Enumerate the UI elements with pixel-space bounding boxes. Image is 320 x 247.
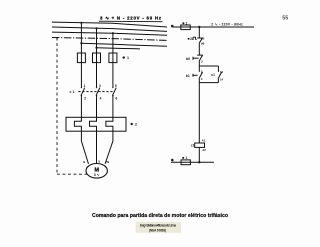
- svg-text:(NEA 67863): (NEA 67863): [149, 228, 166, 232]
- wire v1 upper: [80, 23, 82, 53]
- fuse e1 pole 2: [93, 53, 101, 63]
- overload NC contact e2 (95-96): [188, 36, 205, 45]
- svg-text:A1: A1: [202, 138, 206, 142]
- svg-text:95: 95: [201, 36, 205, 40]
- bus line N (dash-dot): [52, 38, 167, 41]
- wire coil to bottom rail: [198, 147, 200, 162]
- wire overload to motor 1: [81, 131, 88, 164]
- stop pushbutton b0 (NC): [186, 54, 203, 64]
- svg-text:2: 2: [190, 37, 192, 41]
- wire fuse1 to contact1: [80, 63, 82, 88]
- wire overload to motor 3: [105, 131, 113, 164]
- label e2: [131, 123, 138, 127]
- svg-text:Comando para partida direta de: Comando para partida direta de motor elé…: [92, 213, 228, 219]
- contactor c1 main contact 3-4: [96, 84, 101, 117]
- svg-text:Engº Stefano Affonso de Lima: Engº Stefano Affonso de Lima: [140, 223, 176, 227]
- fuse e1 pole 3: [109, 53, 117, 63]
- start pushbutton b1 (NO): [186, 69, 203, 81]
- overload relay e2 box: [66, 117, 126, 131]
- motor terminals U V W: [83, 160, 109, 164]
- svg-text:4: 4: [100, 96, 102, 100]
- svg-text:w: w: [106, 160, 110, 164]
- tap line A from phase R: [81, 43, 167, 46]
- wire c1 aux bottom: [217, 79, 219, 83]
- node tapA/v1: [80, 42, 82, 44]
- wire to e2 contact: [198, 27, 200, 38]
- svg-text:2: 2: [84, 96, 86, 100]
- node L3/v3: [112, 32, 114, 34]
- control top wire: [172, 26, 254, 28]
- overload heater 1: [74, 117, 81, 131]
- wire b1 bottom: [198, 79, 200, 83]
- svg-text:b1: b1: [186, 74, 190, 78]
- wire branch down to c1 aux: [217, 66, 219, 72]
- wire e2 to b0: [198, 43, 200, 55]
- svg-text:b0: b0: [186, 57, 190, 61]
- tap line B from phase S: [97, 48, 141, 49]
- wire b1 top: [198, 66, 200, 72]
- svg-text:6: 6: [116, 96, 118, 100]
- label e1: [123, 56, 130, 60]
- wire fuse3 to contact3: [112, 63, 114, 88]
- contact terminal dots: [81, 87, 114, 96]
- svg-text:3: 3: [99, 84, 101, 88]
- wire fuse2 to contact2: [96, 63, 98, 88]
- ground/neutral dashed wire (horizontal to motor frame): [57, 173, 87, 175]
- svg-text:v: v: [98, 160, 100, 164]
- fuse e1 pole 1: [77, 53, 85, 63]
- overload heater 2: [90, 117, 97, 131]
- svg-text:u: u: [83, 160, 85, 164]
- node control tap: [198, 26, 200, 28]
- svg-text:3 ∿: 3 ∿: [94, 173, 101, 177]
- wire v2 upper: [96, 28, 98, 53]
- node L2/v2: [95, 27, 97, 29]
- svg-text:5: 5: [115, 84, 117, 88]
- svg-text:c1: c1: [191, 143, 195, 147]
- label e1 (control fuse top): [182, 22, 187, 26]
- svg-text:c1: c1: [211, 73, 215, 77]
- overload heater 3: [106, 117, 113, 131]
- wire b0 to branch: [198, 61, 200, 66]
- svg-text:1: 1: [127, 56, 129, 60]
- node coil/rail: [198, 161, 200, 163]
- credit highlight box: [136, 222, 182, 233]
- svg-text:14: 14: [220, 77, 224, 81]
- control supply terminal (top): [171, 25, 174, 28]
- motor M1: [86, 164, 107, 179]
- svg-text:A2: A2: [202, 148, 206, 152]
- ground/neutral dashed wire (vertical): [56, 38, 58, 175]
- svg-text:1: 1: [186, 22, 188, 26]
- svg-text:1: 1: [185, 156, 187, 160]
- mechanical link (dashed): [78, 91, 114, 93]
- bus line L1: [52, 22, 167, 27]
- fuse e4 (control, bottom): [181, 160, 190, 165]
- control supply terminal (bottom): [171, 159, 174, 162]
- svg-text:3 ∿ + N - 220V - 60 Hz: 3 ∿ + N - 220V - 60 Hz: [100, 15, 161, 20]
- contactor c1 main contact 1-2: [81, 84, 86, 117]
- svg-text:96: 96: [201, 42, 205, 46]
- svg-text:13: 13: [220, 70, 224, 74]
- wire branch to coil: [198, 83, 200, 143]
- svg-text:55: 55: [282, 15, 288, 21]
- svg-text:c 1: c 1: [70, 90, 75, 94]
- branch top rail: [199, 65, 218, 67]
- contactor coil c1: [191, 138, 206, 151]
- svg-text:2 ∿ - 220V - 60Hz: 2 ∿ - 220V - 60Hz: [211, 23, 243, 27]
- seal-in contact c1 (13-14): [211, 70, 223, 81]
- bus line L2: [52, 27, 167, 31]
- node tapB/v2: [95, 47, 97, 49]
- contactor c1 main contact 5-6: [113, 84, 118, 117]
- node N/ground tap: [56, 37, 58, 39]
- svg-text:2: 2: [135, 123, 137, 127]
- bus line L3: [52, 32, 167, 35]
- supply label underline: [99, 20, 163, 23]
- control bottom rail: [171, 161, 214, 163]
- node L1/v1: [80, 22, 82, 24]
- wire v3 upper: [112, 33, 114, 53]
- branch bottom rail: [199, 82, 218, 84]
- fuse e3 (control, top): [181, 25, 190, 30]
- wire overload to motor 2: [96, 131, 98, 163]
- svg-text:1: 1: [84, 84, 86, 88]
- label e1 (control fuse bottom): [182, 156, 187, 160]
